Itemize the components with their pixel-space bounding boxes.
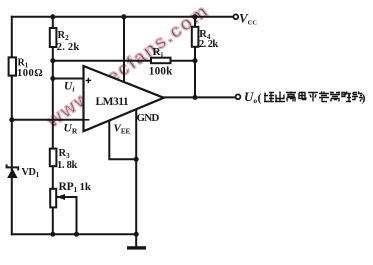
watermark www.elecfans.com diagonal — [42, 0, 213, 132]
svg-text:(: ( — [258, 91, 262, 105]
ground — [127, 246, 146, 249]
wire UR line to - input — [12, 119, 84, 121]
wire Rj feedback line — [53, 60, 195, 62]
node dot top of R4 — [193, 14, 198, 19]
op-amp plus sign — [86, 78, 91, 83]
node dot VEE-GND joint — [134, 157, 139, 162]
svg-text:LM311: LM311 — [96, 96, 129, 108]
node dot Ui — [50, 76, 55, 81]
svg-text:100Ω: 100Ω — [17, 68, 43, 79]
node dot output — [193, 95, 198, 100]
wire GND pin — [135, 109, 137, 234]
wire R4 column — [194, 17, 196, 98]
svg-text:): ) — [362, 91, 366, 105]
resistor R3 — [50, 149, 57, 167]
zener diode VD1 — [7, 164, 19, 178]
wire VEE pin — [109, 121, 136, 160]
node dot R2 bottom / Rj — [50, 58, 55, 63]
node dot wiper bottom — [74, 232, 79, 237]
svg-text:2. 2k: 2. 2k — [57, 42, 80, 53]
node dot gnd rail end — [134, 232, 139, 237]
svg-text:1. 8k: 1. 8k — [57, 160, 78, 171]
op-amp U1 LM311 triangle — [84, 66, 164, 131]
wire ground stem — [135, 234, 137, 246]
resistor R1 — [9, 57, 16, 75]
wire bottom rail — [12, 233, 136, 235]
resistor R2 — [50, 28, 57, 47]
wire divider column (R2/R3/RP1) — [52, 17, 54, 234]
wire Ui line to + input — [53, 78, 84, 80]
wire top rail — [12, 16, 234, 18]
svg-text:100k: 100k — [149, 66, 173, 78]
svg-text:GND: GND — [137, 112, 160, 124]
chinese text (fake glyph strokes) 输出高电平告警信号 — [264, 92, 362, 102]
wire op-amp V+ supply pin from rail — [123, 17, 125, 82]
node dot op-amp V+ pin at rail — [121, 14, 126, 19]
resistor R4 — [192, 27, 199, 47]
op-amp minus sign — [84, 119, 89, 121]
node dot Rj right / R4 — [193, 58, 198, 63]
resistor Rj — [151, 58, 171, 64]
wire left vertical — [11, 17, 13, 234]
terminal Uo — [236, 94, 241, 99]
terminal Vcc — [233, 14, 238, 19]
node dot UR / R1-VD1 — [9, 117, 14, 122]
svg-text:2. 2k: 2. 2k — [199, 39, 218, 50]
node dot top of R2 — [50, 14, 55, 19]
node dot divider bottom — [50, 232, 55, 237]
wire output line — [164, 96, 235, 98]
potentiometer RP1 body — [50, 189, 56, 208]
wire RP1 wiper return — [58, 197, 77, 234]
potentiometer RP1 wiper arrow — [57, 194, 66, 200]
